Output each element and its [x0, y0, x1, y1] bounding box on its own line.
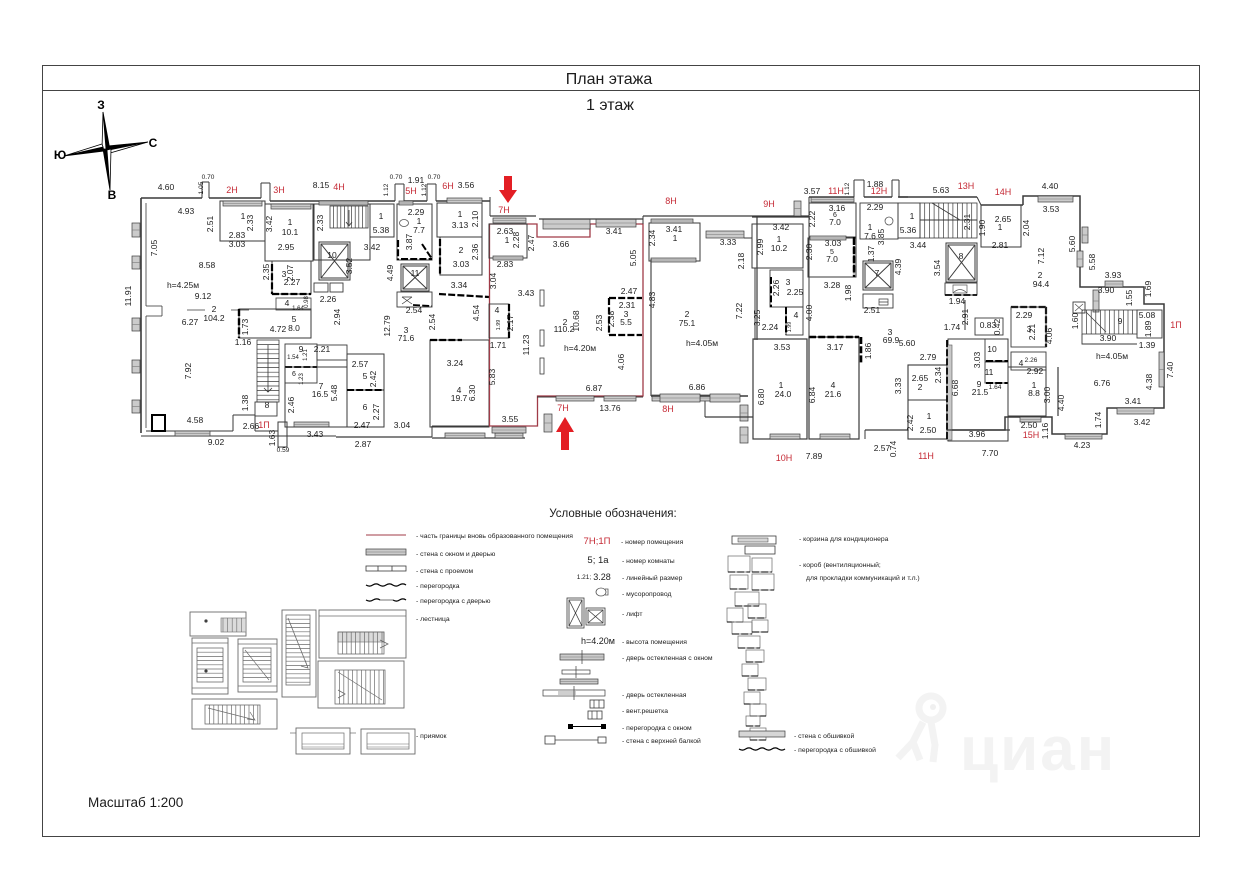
svg-text:5.08: 5.08	[1139, 310, 1156, 320]
svg-text:1.12: 1.12	[383, 183, 390, 196]
svg-text:5.38: 5.38	[373, 225, 390, 235]
svg-text:7.40: 7.40	[1165, 361, 1175, 378]
svg-text:0.70: 0.70	[390, 174, 403, 181]
legend row partition	[366, 584, 406, 586]
svg-text:1.63: 1.63	[267, 429, 277, 446]
svg-text:7Н: 7Н	[557, 403, 569, 413]
7N bottom windows	[544, 414, 552, 432]
porch 1P	[278, 422, 287, 447]
svg-text:2.17: 2.17	[505, 314, 515, 331]
svg-text:1.05: 1.05	[198, 181, 205, 194]
svg-text:- короб (вентиляционный;: - короб (вентиляционный;	[799, 561, 881, 569]
svg-text:3.42: 3.42	[364, 242, 381, 252]
svg-text:- стена с окном и дверью: - стена с окном и дверью	[416, 551, 495, 558]
svg-text:3.03: 3.03	[453, 259, 470, 269]
svg-text:1.16: 1.16	[1040, 422, 1050, 439]
svg-text:2.30: 2.30	[804, 243, 814, 260]
svg-text:6.87: 6.87	[586, 383, 603, 393]
svg-text:19.7: 19.7	[451, 393, 468, 403]
svg-text:2.38: 2.38	[606, 310, 616, 327]
svg-text:З: З	[97, 98, 105, 112]
compass rose	[54, 98, 158, 202]
svg-text:2.10: 2.10	[470, 210, 480, 227]
svg-text:- часть границы вновь образов: - часть границы вновь образованного поме…	[416, 532, 573, 540]
svg-text:- дверь остекленная с окном: - дверь остекленная с окном	[622, 655, 713, 662]
room 1 8.8 walls	[1008, 367, 1046, 416]
7N top windows	[543, 219, 590, 229]
svg-text:2.29: 2.29	[1016, 310, 1033, 320]
svg-text:8.8: 8.8	[1028, 388, 1040, 398]
7N left small room 4	[489, 304, 509, 338]
svg-text:4.23: 4.23	[1074, 440, 1091, 450]
svg-text:7.0: 7.0	[826, 254, 838, 264]
svg-text:1: 1	[458, 209, 463, 219]
legend middle elevators	[567, 598, 584, 628]
svg-text:7.0: 7.0	[829, 217, 841, 227]
svg-text:2.29: 2.29	[867, 202, 884, 212]
legend middle glazed door with window	[560, 654, 604, 660]
svg-text:4.93: 4.93	[178, 206, 195, 216]
svg-text:5.58: 5.58	[1087, 253, 1097, 270]
svg-text:1.94: 1.94	[949, 296, 966, 306]
svg-text:24.0: 24.0	[775, 389, 792, 399]
svg-text:3.04: 3.04	[394, 420, 411, 430]
svg-text:7.7: 7.7	[413, 225, 425, 235]
right unit outline	[947, 196, 1164, 434]
svg-text:1.21: 1.21	[303, 349, 309, 361]
legend middle wall with beam	[545, 736, 555, 744]
mini plan block 3	[238, 639, 277, 692]
svg-text:- стена с верхней балкой: - стена с верхней балкой	[622, 737, 701, 745]
svg-text:2.34: 2.34	[647, 229, 657, 246]
left wall windows	[132, 223, 140, 237]
svg-text:1.12: 1.12	[421, 183, 428, 196]
unit 8N walls	[643, 215, 809, 217]
svg-text:- корзина для кондиционера: - корзина для кондиционера	[799, 536, 889, 543]
svg-text:1.55: 1.55	[1124, 289, 1134, 306]
svg-text:2.87: 2.87	[355, 439, 372, 449]
svg-text:21.5: 21.5	[972, 387, 989, 397]
svg-text:3.42: 3.42	[773, 222, 790, 232]
svg-text:С: С	[149, 136, 158, 150]
svg-text:2.51: 2.51	[864, 305, 881, 315]
svg-text:7Н;1П: 7Н;1П	[584, 536, 611, 547]
unit 11N top rooms	[809, 203, 856, 237]
svg-text:6.84: 6.84	[807, 386, 817, 403]
svg-text:1.38: 1.38	[240, 394, 250, 411]
svg-text:10.68: 10.68	[571, 310, 581, 332]
title separator line	[43, 90, 1200, 92]
svg-text:2.42: 2.42	[905, 414, 915, 431]
svg-text:- мусоропровод: - мусоропровод	[622, 591, 671, 598]
svg-text:6Н: 6Н	[442, 181, 454, 191]
svg-text:11.23: 11.23	[521, 334, 531, 355]
svg-text:5Н: 5Н	[405, 186, 417, 196]
svg-text:2.33: 2.33	[315, 214, 325, 231]
stair 8 exit corridor	[255, 402, 277, 416]
unit 9N walls	[752, 216, 809, 218]
room 4 19.7 walls	[430, 340, 489, 427]
unit 6N rooms	[437, 203, 482, 237]
svg-text:16.5: 16.5	[312, 389, 329, 399]
svg-text:В: В	[108, 188, 117, 202]
svg-text:2.04: 2.04	[1021, 219, 1031, 236]
room 7 16.5 walls	[285, 367, 347, 427]
svg-text:4: 4	[1019, 358, 1024, 368]
svg-text:6.80: 6.80	[756, 388, 766, 405]
svg-text:1.91: 1.91	[408, 175, 425, 185]
svg-text:2.18: 2.18	[736, 252, 746, 269]
svg-text:8.0: 8.0	[288, 323, 300, 333]
elevator 8	[946, 243, 977, 282]
svg-text:6.30: 6.30	[467, 384, 477, 401]
svg-text:5.83: 5.83	[487, 368, 497, 385]
legend row wall window door	[366, 549, 406, 555]
svg-text:0.98: 0.98	[304, 296, 310, 308]
svg-text:10: 10	[327, 250, 337, 260]
svg-text:6.68: 6.68	[950, 379, 960, 396]
svg-text:5.5: 5.5	[620, 317, 632, 327]
svg-text:4: 4	[285, 298, 290, 308]
svg-text:8.15: 8.15	[313, 180, 330, 190]
rooms under stair 13N	[945, 283, 977, 295]
svg-text:9: 9	[1118, 316, 1123, 326]
svg-text:1.37: 1.37	[866, 245, 876, 262]
small room 0.83	[975, 318, 1003, 335]
mini pit plan 2	[361, 729, 415, 754]
svg-text:1.74: 1.74	[944, 322, 961, 332]
svg-text:3.56: 3.56	[458, 180, 475, 190]
small window boxes centre	[314, 283, 328, 292]
svg-text:94.4: 94.4	[1033, 279, 1050, 289]
shaft 11 elevator	[401, 264, 429, 291]
svg-text:3.53: 3.53	[1043, 204, 1060, 214]
unit 13N stair	[898, 196, 977, 198]
svg-text:3.42: 3.42	[1134, 417, 1151, 427]
svg-text:1.99: 1.99	[496, 320, 502, 331]
svg-text:3.54: 3.54	[932, 259, 942, 276]
svg-text:3.57: 3.57	[804, 186, 821, 196]
svg-text:10Н: 10Н	[776, 453, 793, 463]
svg-text:1.74: 1.74	[1093, 411, 1103, 428]
svg-text:циан: циан	[960, 715, 1116, 784]
svg-text:2.46: 2.46	[286, 396, 296, 413]
svg-text:3.90: 3.90	[1098, 285, 1115, 295]
svg-text:2.42: 2.42	[368, 370, 378, 387]
svg-text:4.83: 4.83	[647, 291, 657, 308]
svg-text:h=4.05м: h=4.05м	[686, 338, 718, 348]
svg-text:7Н: 7Н	[498, 205, 510, 215]
mini pit plan 1	[296, 728, 350, 754]
svg-text:3.04: 3.04	[488, 272, 498, 289]
svg-text:2.27: 2.27	[284, 277, 301, 287]
svg-text:4.06: 4.06	[1044, 327, 1054, 344]
svg-text:1.90: 1.90	[977, 219, 987, 236]
svg-text:15Н: 15Н	[1023, 430, 1040, 440]
svg-text:14Н: 14Н	[995, 187, 1012, 197]
svg-text:8: 8	[265, 400, 270, 410]
room 5 8.0 walls	[239, 309, 311, 338]
svg-text:2.25: 2.25	[787, 287, 804, 297]
svg-text:4.40: 4.40	[1042, 181, 1059, 191]
mini plan block 2	[192, 638, 228, 694]
svg-text:11: 11	[411, 268, 420, 278]
stair 4N flight	[330, 206, 368, 228]
middle bottom wall	[432, 437, 525, 439]
svg-text:12Н: 12Н	[871, 186, 888, 196]
legend middle vent grille	[590, 700, 604, 708]
svg-text:1.16: 1.16	[235, 337, 252, 347]
unit 12N walls	[860, 203, 898, 239]
room 9 21.5 walls	[948, 339, 1008, 441]
svg-text:2.94: 2.94	[332, 308, 342, 325]
svg-text:2.26: 2.26	[320, 294, 337, 304]
svg-text:3.34: 3.34	[451, 280, 468, 290]
left wall notch	[146, 305, 162, 307]
svg-text:Масштаб 1:200: Масштаб 1:200	[88, 795, 183, 810]
svg-text:6: 6	[363, 402, 368, 412]
svg-text:8: 8	[959, 251, 964, 261]
svg-text:- приямок: - приямок	[416, 733, 447, 740]
svg-text:1 этаж: 1 этаж	[586, 97, 634, 114]
mini plan block 4 tall	[282, 610, 316, 697]
svg-text:3.93: 3.93	[1105, 270, 1122, 280]
legend middle glazed door	[543, 690, 605, 696]
svg-text:3Н: 3Н	[273, 185, 285, 195]
watermark cian logo	[898, 696, 943, 762]
svg-text:2.27: 2.27	[371, 403, 381, 420]
svg-text:5.48: 5.48	[329, 384, 339, 401]
svg-text:1.21;: 1.21;	[577, 574, 592, 581]
svg-text:План этажа: План этажа	[566, 71, 653, 88]
svg-text:2.81: 2.81	[992, 240, 1009, 250]
svg-text:11Н: 11Н	[828, 186, 844, 196]
svg-text:3.66: 3.66	[553, 239, 570, 249]
svg-text:6.76: 6.76	[1094, 378, 1111, 388]
rooms 10 11 right cluster	[985, 339, 1008, 361]
mini plan block 5 wide	[319, 610, 406, 658]
svg-text:1: 1	[288, 217, 293, 227]
svg-text:3.55: 3.55	[502, 414, 519, 424]
svg-text:2.31: 2.31	[962, 213, 972, 230]
svg-text:4.58: 4.58	[187, 415, 204, 425]
svg-text:1: 1	[998, 222, 1003, 232]
svg-text:4.49: 4.49	[385, 264, 395, 281]
svg-text:3.16: 3.16	[829, 203, 846, 213]
svg-text:11: 11	[985, 367, 994, 377]
svg-text:3.03: 3.03	[825, 238, 842, 248]
8N right wall	[756, 216, 758, 340]
svg-text:- стена с проемом: - стена с проемом	[416, 568, 474, 575]
svg-text:1.89: 1.89	[1143, 320, 1153, 337]
svg-text:1: 1	[379, 211, 384, 221]
svg-text:7.89: 7.89	[806, 451, 823, 461]
legend row border line	[366, 534, 406, 536]
svg-text:3.90: 3.90	[1100, 333, 1117, 343]
svg-text:- стена с обшивкой: - стена с обшивкой	[794, 732, 854, 740]
svg-text:0.70: 0.70	[202, 174, 215, 181]
svg-text:4: 4	[495, 305, 500, 315]
room 1 5.38 walls	[370, 204, 394, 237]
svg-text:3.13: 3.13	[452, 220, 469, 230]
svg-text:4.06: 4.06	[616, 353, 626, 370]
svg-text:5: 5	[363, 371, 368, 381]
mini plan block 1	[190, 612, 246, 636]
svg-text:- высота помещения: - высота помещения	[622, 639, 687, 646]
svg-text:9Н: 9Н	[763, 199, 775, 209]
svg-text:2.34: 2.34	[933, 366, 943, 383]
10N left windows	[740, 405, 748, 421]
svg-text:8Н: 8Н	[665, 196, 677, 206]
svg-text:1: 1	[927, 411, 932, 421]
svg-text:1: 1	[673, 233, 678, 243]
svg-text:4.60: 4.60	[158, 182, 175, 192]
svg-text:7.6: 7.6	[864, 231, 876, 241]
svg-text:69.9: 69.9	[883, 335, 900, 345]
svg-text:2.31: 2.31	[619, 300, 636, 310]
svg-text:7: 7	[875, 268, 880, 278]
svg-text:3.53: 3.53	[774, 342, 791, 352]
svg-text:- лестница: - лестница	[416, 616, 450, 623]
stair 9 block right	[1082, 310, 1137, 334]
svg-text:1: 1	[910, 211, 915, 221]
room 536 walls	[898, 203, 920, 238]
svg-text:1.60: 1.60	[1070, 312, 1080, 329]
stair 8 flight	[257, 340, 279, 402]
svg-text:1.64: 1.64	[292, 306, 304, 312]
svg-text:2Н: 2Н	[226, 185, 238, 195]
svg-text:- номер помещения: - номер помещения	[621, 539, 684, 546]
svg-text:4.38: 4.38	[1144, 373, 1154, 390]
svg-text:13.76: 13.76	[599, 403, 621, 413]
svg-text:7.92: 7.92	[183, 362, 193, 379]
svg-text:1.99: 1.99	[787, 322, 793, 333]
svg-text:5.63: 5.63	[933, 185, 950, 195]
left wall inner line	[145, 203, 147, 306]
building outer wall left unit	[140, 198, 142, 433]
9N small rooms	[770, 270, 803, 307]
legend right duct cluster	[728, 556, 750, 572]
svg-text:3.33: 3.33	[893, 377, 903, 394]
right outline windows	[1038, 196, 1073, 202]
svg-text:1.71: 1.71	[490, 340, 507, 350]
svg-text:5.36: 5.36	[900, 225, 917, 235]
svg-text:3.24: 3.24	[447, 358, 464, 368]
svg-text:7.22: 7.22	[734, 302, 744, 319]
svg-text:1П: 1П	[1170, 320, 1181, 330]
left unit bottom wall	[141, 435, 336, 437]
svg-text:4: 4	[794, 310, 799, 320]
svg-text:6.27: 6.27	[182, 317, 199, 327]
svg-text:3.33: 3.33	[720, 237, 737, 247]
svg-text:- вент.решетка: - вент.решетка	[622, 708, 668, 715]
svg-text:3.28: 3.28	[824, 280, 841, 290]
legend row wall opening	[366, 566, 406, 571]
svg-text:2.54: 2.54	[427, 313, 437, 330]
svg-text:4.54: 4.54	[471, 304, 481, 321]
7N interior room 3 5.5	[609, 297, 642, 299]
svg-text:2: 2	[459, 245, 464, 255]
svg-text:1.69: 1.69	[1143, 280, 1153, 297]
svg-text:1.12: 1.12	[844, 182, 851, 195]
svg-text:1.39: 1.39	[1139, 340, 1156, 350]
legend middle partition with window	[568, 724, 573, 729]
svg-text:2.66: 2.66	[243, 421, 260, 431]
vent box left of stair9	[1073, 302, 1085, 313]
svg-text:- перегородка с обшивкой: - перегородка с обшивкой	[794, 746, 876, 754]
svg-text:75.1: 75.1	[679, 318, 696, 328]
unit 10N walls	[753, 339, 807, 439]
svg-text:4Н: 4Н	[333, 182, 345, 192]
left unit bottom windows	[175, 431, 210, 436]
svg-text:3.28: 3.28	[593, 572, 611, 582]
svg-text:2.35: 2.35	[261, 263, 271, 280]
svg-text:5.05: 5.05	[628, 249, 638, 266]
rooms 9 and 6 tiny	[285, 344, 317, 367]
unit 3N room walls	[265, 204, 313, 261]
11N bottom rooms walls	[908, 365, 947, 439]
svg-text:2.26: 2.26	[1025, 357, 1038, 364]
svg-text:2.21: 2.21	[314, 344, 331, 354]
svg-text:9.12: 9.12	[195, 291, 212, 301]
svg-text:3.17: 3.17	[827, 342, 844, 352]
svg-text:2.95: 2.95	[278, 242, 295, 252]
svg-text:2.36: 2.36	[470, 243, 480, 260]
shaft 10 elevator	[319, 242, 350, 280]
svg-text:1.73: 1.73	[240, 318, 250, 335]
svg-text:0.59: 0.59	[277, 447, 290, 454]
svg-text:2: 2	[918, 382, 923, 392]
svg-text:7.70: 7.70	[982, 448, 999, 458]
room 4 164 tiny	[276, 298, 311, 310]
unit 2N room walls	[220, 201, 265, 241]
svg-text:11.91: 11.91	[123, 285, 133, 306]
rooms 5 and 6 column	[347, 354, 384, 390]
svg-text:3.00: 3.00	[1042, 386, 1052, 403]
svg-text:- перегородка с окном: - перегородка с окном	[622, 725, 692, 732]
svg-text:4.39: 4.39	[893, 258, 903, 275]
svg-text:104.2: 104.2	[203, 313, 225, 323]
svg-text:10.2: 10.2	[771, 243, 788, 253]
7N window sill marks	[540, 290, 544, 306]
svg-text:- дверь остекленная: - дверь остекленная	[622, 692, 687, 699]
svg-text:h=4.25м: h=4.25м	[167, 280, 199, 290]
svg-text:8Н: 8Н	[662, 404, 674, 414]
mini plan block 7 low	[192, 699, 277, 729]
svg-text:0.70: 0.70	[428, 174, 441, 181]
8N room left wall	[650, 259, 652, 396]
svg-text:Ю: Ю	[54, 148, 66, 162]
svg-text:2.91: 2.91	[960, 308, 970, 325]
svg-text:- линейный размер: - линейный размер	[622, 574, 683, 582]
middle-right divider walls	[865, 429, 908, 431]
elevator 7	[863, 261, 893, 290]
svg-text:2.47: 2.47	[354, 420, 371, 430]
svg-text:3.52: 3.52	[344, 257, 354, 274]
svg-text:h=4.20м: h=4.20м	[581, 636, 615, 646]
svg-text:2.28: 2.28	[511, 231, 521, 248]
svg-text:1.64: 1.64	[989, 384, 1002, 391]
svg-text:3: 3	[786, 277, 791, 287]
svg-text:6: 6	[292, 371, 296, 378]
svg-text:5; 1а: 5; 1а	[587, 555, 609, 566]
svg-text:3.42: 3.42	[264, 215, 274, 232]
svg-text:10.1: 10.1	[282, 227, 299, 237]
legend middle symbol small bars	[562, 670, 590, 674]
svg-text:6.86: 6.86	[689, 382, 706, 392]
svg-text:3.03: 3.03	[972, 351, 982, 368]
svg-text:3.44: 3.44	[910, 240, 927, 250]
